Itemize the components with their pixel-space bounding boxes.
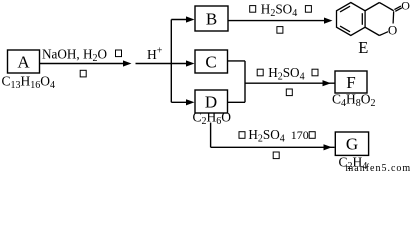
box B — [195, 6, 228, 31]
lactone bond ester O to CH2 bottom — [379, 32, 388, 36]
svg-text:H+: H+ — [147, 45, 163, 62]
svg-text:H2SO4: H2SO4 — [261, 2, 297, 20]
svg-text:H2SO4: H2SO4 — [248, 127, 284, 145]
tofu below first arrow — [80, 70, 86, 77]
wire branch to B — [171, 19, 188, 21]
wire down to G — [211, 146, 335, 148]
svg-text:A: A — [17, 53, 30, 72]
svg-text:H2SO4: H2SO4 — [268, 65, 304, 83]
tofu below B-E arrow — [277, 27, 283, 34]
svg-text:G: G — [346, 135, 358, 154]
svg-text:C4H8O2: C4H8O2 — [332, 91, 376, 109]
benzene inner double bond fusion edge — [361, 13, 363, 25]
tofu before H2SO4 (B row) — [250, 6, 256, 13]
tofu after NaOH H2O — [116, 50, 122, 57]
tofu before H2SO4 (G row) — [239, 132, 245, 139]
tofu before H2SO4 (F row) — [257, 69, 263, 76]
arrowhead into box G — [324, 144, 333, 150]
svg-text:O: O — [401, 0, 410, 13]
carbonyl C=O double bond — [394, 6, 401, 10]
arrowhead into structure E — [324, 18, 333, 24]
box D — [195, 90, 228, 113]
svg-text:C13H16O4: C13H16O4 — [2, 74, 56, 92]
tofu after H2SO4 (F row) — [312, 69, 318, 76]
svg-text:O: O — [388, 22, 397, 37]
wire D exit — [228, 101, 246, 103]
wire D down from C2H6O — [210, 123, 212, 148]
wire C exit — [228, 60, 246, 62]
benzene inner double bond bottom-left — [340, 26, 350, 32]
arrowhead into box B — [186, 16, 195, 22]
box G — [335, 132, 368, 155]
wire H+ segment to branch — [136, 63, 189, 65]
svg-text:B: B — [206, 10, 217, 29]
svg-text:F: F — [346, 73, 355, 92]
svg-text:170: 170 — [291, 128, 309, 142]
wire branch to D — [171, 101, 188, 103]
wire merge to F — [245, 82, 335, 84]
box F — [335, 71, 367, 93]
wire branch vertical — [170, 20, 172, 103]
arrowhead into box D — [186, 99, 195, 105]
structure E: benzene ring — [337, 3, 402, 36]
box A — [8, 50, 40, 73]
svg-text:manfen5.com: manfen5.com — [346, 163, 412, 174]
tofu below F arrow — [286, 89, 292, 96]
svg-text:C: C — [205, 53, 216, 72]
arrowhead into box C — [186, 60, 195, 66]
arrowhead into H+ segment — [123, 60, 132, 66]
benzene inner double bond top-left — [340, 6, 350, 12]
wire merge vertical C/D — [244, 61, 246, 102]
tofu after 170 (G row) — [309, 132, 315, 139]
svg-text:NaOH, H2O: NaOH, H2O — [42, 47, 107, 65]
tofu after H2SO4 (B row) — [305, 6, 311, 13]
svg-text:E: E — [358, 38, 368, 57]
lactone bond CH2 bottom to fusion-bottom — [365, 27, 379, 35]
lactone bond carbonyl C to ester O — [392, 11, 395, 23]
arrowhead into box F — [323, 80, 332, 86]
box C — [195, 50, 228, 73]
lactone ring bond fusion-top to CH2 top — [365, 3, 379, 11]
tofu below G arrow — [273, 152, 279, 159]
svg-text:C2H6O: C2H6O — [193, 110, 232, 128]
lactone bond CH2 top to carbonyl C — [379, 3, 393, 11]
wire A to H+ arrow — [40, 63, 125, 65]
wire B to E — [228, 20, 326, 22]
